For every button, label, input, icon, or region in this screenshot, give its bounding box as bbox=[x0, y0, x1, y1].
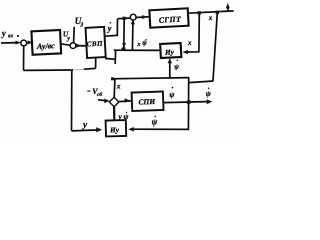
arrowhead into S1 bbox=[16, 41, 22, 45]
svg-text:СПИ: СПИ bbox=[138, 97, 156, 107]
label U_vx input bbox=[1, 28, 14, 40]
arrowhead after S2 bbox=[76, 44, 81, 48]
wire CVP bottom stub bbox=[105, 58, 116, 59]
svg-text:ψ: ψ bbox=[152, 117, 158, 127]
wire CVP bottom tap bbox=[95, 58, 97, 68]
wire jog step bbox=[188, 78, 190, 83]
svg-text:x: x bbox=[116, 82, 121, 91]
arrowhead feedback into IU2 right bbox=[128, 127, 134, 132]
block A (Au/vs amplifier) bbox=[31, 30, 61, 55]
junction blob y-branch bbox=[122, 47, 125, 50]
wire -Vsb input bbox=[98, 99, 106, 102]
block IU2 (lower measuring unit) bbox=[106, 120, 127, 136]
svg-text:СГПТ: СГПТ bbox=[159, 15, 183, 25]
svg-text:ψ: ψ bbox=[142, 40, 147, 47]
junction dot D2 bbox=[198, 11, 201, 14]
svg-text:x: x bbox=[208, 14, 213, 22]
svg-text:ψ: ψ bbox=[174, 63, 179, 71]
junction dot D3 bbox=[216, 11, 219, 14]
wire S3 drop bbox=[131, 20, 134, 50]
wire S2 to CVP bbox=[75, 45, 86, 47]
block IU1 (upper measuring unit) bbox=[160, 43, 181, 58]
wire SPI output bbox=[163, 102, 207, 103]
wire psi-dot up into IU1 bbox=[169, 61, 171, 79]
wire x drop to IU1 right bbox=[188, 13, 200, 52]
arrowhead into IU1 right bbox=[182, 50, 188, 54]
wire feedback down right bbox=[134, 102, 189, 129]
wire x drop2 long right bbox=[213, 13, 217, 81]
svg-text:сб: сб bbox=[97, 91, 102, 98]
wire diamond down into IU2 bbox=[113, 107, 115, 121]
node diamond resolver bbox=[109, 97, 119, 106]
svg-text:у: у bbox=[107, 24, 112, 33]
wire horizontal B bbox=[189, 81, 214, 83]
wire S1 drop bbox=[23, 46, 25, 71]
svg-text:ψ: ψ bbox=[124, 112, 129, 121]
speck artifact bbox=[17, 35, 19, 37]
svg-text:x: x bbox=[136, 41, 141, 48]
svg-text:вх: вх bbox=[8, 33, 14, 39]
node S2 summing circle bbox=[70, 43, 76, 49]
svg-text:3: 3 bbox=[79, 23, 83, 29]
arrowhead SPI output right bbox=[207, 99, 213, 104]
svg-text:у: у bbox=[66, 36, 70, 42]
wire feedback bottom horizontal to S1 bbox=[24, 69, 74, 71]
wire block A to S2 bbox=[61, 44, 70, 45]
arrowhead -Vsb into diamond bbox=[104, 99, 109, 104]
svg-text:ψ: ψ bbox=[169, 90, 175, 99]
wire output up arrow stem bbox=[227, 6, 229, 12]
wire junction drop to SPI line bbox=[188, 83, 190, 102]
block SPI bbox=[132, 91, 164, 111]
wire x vertical into diamond bbox=[113, 79, 116, 98]
arrowhead into block A bbox=[28, 40, 32, 44]
wire S3 to SGPT bbox=[136, 16, 150, 19]
wire CVP output up corner bbox=[105, 19, 118, 37]
block CVP bbox=[86, 27, 106, 58]
wire input Увх arrow bbox=[1, 42, 18, 44]
wire U3 drop into S2 bbox=[73, 27, 76, 43]
svg-text:СВП: СВП bbox=[86, 40, 103, 49]
node S1 summing circle bbox=[21, 40, 27, 46]
svg-text:x: x bbox=[187, 39, 192, 47]
svg-text:у: у bbox=[118, 112, 123, 121]
svg-text:Иу: Иу bbox=[109, 126, 120, 134]
node S3 summing circle bbox=[130, 14, 136, 20]
wire S1 to block A bbox=[27, 41, 32, 43]
wire top line to S3 bbox=[118, 17, 130, 20]
wire diamond to SPI bbox=[119, 100, 132, 103]
arrowhead output up bbox=[226, 3, 230, 8]
junction dot D4 bbox=[187, 100, 191, 104]
wire horizontal A long bbox=[112, 78, 189, 79]
junction blob at x line corner bbox=[111, 77, 114, 80]
svg-text:Ау/вс: Ау/вс bbox=[36, 41, 56, 51]
svg-text:ψ: ψ bbox=[206, 89, 212, 98]
wire x vertical upper stub bbox=[114, 50, 116, 64]
svg-text:у: у bbox=[1, 28, 8, 38]
wire y down branch left bbox=[71, 70, 73, 131]
wire y branch down bbox=[123, 18, 125, 48]
arrowhead y into IU2 left bbox=[96, 127, 102, 132]
wire y into IU2 bbox=[72, 129, 97, 132]
arrowhead up into S3 bbox=[131, 20, 135, 25]
arrowhead into SGPT bbox=[142, 15, 147, 19]
label minus Vsb bbox=[87, 90, 90, 92]
wire SGPT output bbox=[188, 11, 233, 13]
svg-text:у: у bbox=[82, 120, 88, 130]
arrowhead diamond to SPI bbox=[125, 98, 130, 102]
svg-text:у: у bbox=[121, 40, 126, 49]
wire IU1 output horizontal bbox=[114, 49, 161, 51]
svg-text:Иу: Иу bbox=[164, 48, 175, 57]
arrowhead psi-dot into IU1 bottom bbox=[168, 58, 172, 63]
junction dot D1 bbox=[123, 17, 126, 20]
block SGPT bbox=[149, 8, 188, 27]
